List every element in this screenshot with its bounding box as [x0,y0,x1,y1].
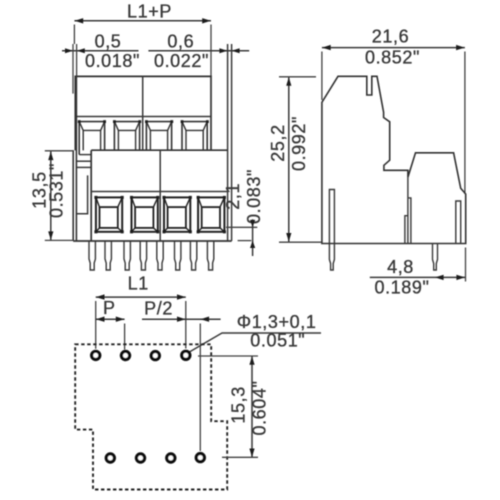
right wall outer line [231,44,233,241]
lower clamp window 4 [198,197,224,231]
dimension 13,5 line [50,151,52,240]
drill hole bottom 1 [106,454,114,462]
svg-text:0,5: 0,5 [95,32,122,52]
svg-text:0.018": 0.018" [85,51,140,71]
svg-text:0.189": 0.189" [374,278,429,298]
svg-text:0.852": 0.852" [365,48,420,68]
lower clamp window 1 [96,197,122,231]
upper clamp window 4 [182,122,207,151]
drill hole bottom 3 [167,454,175,462]
upper clamp window 1 [79,122,104,155]
dimension 25,2 line [288,77,290,242]
svg-text:0.083": 0.083" [244,169,264,224]
svg-text:0.051": 0.051" [250,331,305,351]
svg-text:0.531": 0.531" [47,163,67,218]
dimension L1 right arrow [177,294,186,299]
dimension 2,1 upper arrow [250,220,255,227]
hole diameter leader line [189,333,322,353]
svg-text:L1: L1 [128,274,149,294]
extension line hole4 [185,301,187,349]
side pin channel right [456,201,461,244]
dimension L1 line [96,296,186,298]
dimension P/2 left arrow [177,317,186,322]
dimension 25,2 top arrow [286,77,291,86]
dimension 0,5 right arrow [77,48,85,53]
dimension 21,6 right extension line [464,52,466,195]
svg-text:0.022": 0.022" [154,51,209,71]
svg-text:4,8: 4,8 [387,257,414,277]
terminal body upper tier outline [75,76,211,150]
dimension 4,8 line [370,276,465,278]
dimension 13,5 top extension line [45,150,73,152]
dimension 0,5 left arrow [65,48,73,53]
svg-text:2,1: 2,1 [223,183,243,210]
dimension P line [96,318,125,320]
side body profile [322,76,466,243]
drill hole top 1 [92,351,100,359]
dimension 2,1 bottom extension line [238,240,252,242]
side solder pin left [329,244,334,271]
extension line hole1 [95,301,97,349]
dimension L1+P line [74,20,211,22]
dimension 2,1 line [252,219,254,256]
dimension 25,2 bottom extension line [279,241,322,243]
lower clamp window 3 [164,197,190,231]
svg-text:L1+P: L1+P [127,2,172,22]
drill hole top 3 [151,352,159,360]
upper clamp window 3 [146,122,171,151]
dimension 21,6 line [322,47,465,49]
svg-text:21,6: 21,6 [372,27,409,47]
left cavity step [76,175,87,213]
lower clamp window 2 [132,197,158,231]
dimension 15,3 bottom extension line [222,456,258,458]
svg-text:0,6: 0,6 [167,32,194,52]
terminal body lower tier center divider [159,150,161,241]
dimension P right arrow [116,317,125,322]
svg-text:25,2: 25,2 [268,124,288,161]
dimension 0,6 right arrow [232,48,240,53]
dimension 21,6 left arrow [322,45,331,50]
terminal body lower tier outline [73,150,231,241]
svg-text:15,3: 15,3 [229,386,249,423]
svg-text:0.992": 0.992" [289,116,309,171]
solder pins front view [89,241,214,270]
right wall inner line [227,44,229,241]
dimension 0,5 inner extension line [76,44,78,76]
window corner accents [78,120,226,233]
dimension 13,5 bottom arrow [48,231,53,240]
dimension L1+P right arrow [202,18,211,23]
svg-text:P/2: P/2 [144,299,173,319]
dimension 4,8 right arrow [456,275,465,280]
dimension P left arrow [96,317,105,322]
dimension 15,3 bottom arrow [249,449,254,458]
dimension P/2 line [142,318,221,320]
side tower2 left edge line [407,177,409,243]
extension line hole2 [124,324,126,350]
drill hole top 2 [121,351,129,359]
extension line lower hole4 [199,324,201,452]
dimension 21,6 left extension line [321,52,323,101]
dimension 21,6 right arrow [456,45,465,50]
dimension P/2 right arrow [201,317,210,322]
upper clamp window 2 [114,122,139,151]
side tower2 inner step lines [405,198,411,244]
dimension 4,8 left arrow [435,275,444,280]
terminal body upper tier center divider [142,76,144,150]
svg-text:P: P [103,298,116,318]
dimension L1+P left arrow [75,18,84,23]
dimension 13,5 bottom extension line [45,239,73,241]
terminal body upper tier clamp shelf line [75,116,211,118]
dimension 13,5 top arrow [48,152,53,161]
left wall outer line [72,150,74,241]
dimension 0,6 left arrow [219,48,227,53]
footprint dashed outline [75,344,227,489]
side solder pin right [433,244,438,271]
dimension 15,3 line [251,356,253,457]
dimension 15,3 top extension line [198,355,258,357]
left cavity double lines [76,160,91,162]
dimension 15,3 top arrow [249,356,254,365]
dimension L1+P right extension line [210,25,212,77]
left wall inner line [75,76,77,241]
side pin channel left [329,190,334,244]
dimension 0,5 outer extension line [72,44,74,94]
drill hole bottom 4 [196,454,204,462]
svg-text:Φ1,3+0,1: Φ1,3+0,1 [237,312,317,332]
dimension 0,5 line [62,50,139,52]
dimension 2,1 lower arrow [250,241,255,248]
dimension 0,6 line [148,50,249,52]
dimension 25,2 bottom arrow [286,233,291,242]
drill hole top 4 [182,351,190,359]
dimension 25,2 top extension line [279,76,316,78]
dimension 4,8 right extension line [465,248,467,282]
terminal body lower tier shelf line [91,191,227,193]
dimension L1 left arrow [96,294,105,299]
dimension L1+P left extension line [73,25,75,45]
drill hole bottom 2 [136,454,144,462]
dimension 2,1 top extension line [226,226,257,228]
